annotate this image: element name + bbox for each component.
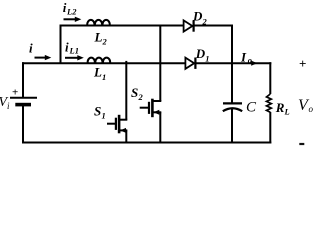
svg-text:i: i — [65, 40, 69, 55]
wire top-right corner down through output node to capacitor — [231, 25, 233, 104]
transistor S2 source arrow — [153, 110, 159, 115]
wire capacitor bottom to bottom rail — [231, 108, 233, 144]
wire vertical D2-anode node down to S2 drain (crosses input row) — [159, 25, 161, 102]
capacitor C curved bottom plate — [223, 108, 242, 111]
transistor S1 source arrow — [120, 128, 126, 133]
current arrow i_L2 — [64, 18, 76, 20]
wire top row left segment (node A to D2 anode) — [60, 25, 184, 27]
svg-text:S: S — [131, 85, 138, 100]
svg-text:+: + — [299, 56, 306, 71]
svg-text:L2: L2 — [66, 7, 77, 17]
svg-text:+: + — [12, 87, 18, 99]
output minus sign — [299, 143, 304, 145]
wire vertical from node A down to input row — [60, 25, 62, 64]
wire S1 source down to bottom rail — [125, 130, 127, 143]
transistor S1 gate bar — [115, 118, 117, 130]
wire bottom rail — [22, 142, 271, 144]
inductor L1 coil — [88, 58, 111, 64]
diode D2 triangle — [184, 20, 193, 31]
svg-text:1: 1 — [102, 111, 106, 121]
svg-text:L1: L1 — [69, 46, 79, 56]
battery Vi long plate — [10, 97, 37, 99]
svg-text:C: C — [246, 100, 257, 116]
transistor S1 drain lead — [119, 119, 127, 121]
inductor L2 coil — [87, 20, 110, 26]
wire load resistor bottom to bottom rail — [269, 112, 271, 144]
transistor S2 drain lead — [152, 100, 161, 102]
transistor S2 gate bar — [148, 102, 150, 114]
wire left rail top (input node to battery +) — [22, 62, 24, 97]
wire output row (D1 cathode to output corner) — [195, 62, 271, 64]
transistor S1 gate lead — [107, 123, 116, 125]
wire input row (left rail to D1 anode) — [22, 62, 185, 64]
svg-text:L: L — [93, 65, 102, 80]
svg-text:i: i — [29, 41, 33, 56]
transistor S1 channel bar — [118, 115, 121, 134]
svg-text:I: I — [240, 50, 247, 65]
svg-text:L: L — [284, 107, 290, 117]
wire S1 drain vertical — [125, 61, 127, 120]
svg-text:o: o — [248, 55, 252, 65]
current arrow i_L1 — [65, 57, 78, 59]
current arrow I_o (on output wire) — [251, 61, 257, 66]
svg-text:i: i — [7, 101, 10, 111]
svg-text:o: o — [309, 104, 314, 114]
diode D2 cathode bar — [193, 20, 195, 31]
svg-text:L: L — [94, 30, 103, 45]
capacitor C top plate — [223, 102, 242, 104]
wire left rail bottom (battery - to bottom rail) — [22, 106, 24, 144]
diode D1 cathode bar — [194, 58, 196, 69]
battery Vi short thick plate — [15, 103, 31, 107]
resistor RL zigzag — [267, 94, 272, 112]
wire top row right segment (D2 cathode to top-right corner) — [194, 25, 234, 27]
svg-text:D: D — [192, 9, 203, 24]
transistor S2 gate lead — [140, 107, 149, 109]
svg-text:2: 2 — [202, 17, 208, 27]
wire output corner down to load resistor — [269, 62, 271, 94]
wire S2 source down to bottom rail — [159, 112, 161, 143]
svg-text:R: R — [275, 100, 285, 115]
transistor S1 source lead — [119, 129, 127, 131]
svg-text:2: 2 — [102, 37, 108, 47]
svg-text:2: 2 — [138, 92, 144, 102]
transistor S2 channel bar — [151, 99, 154, 118]
transistor S2 source lead — [152, 111, 161, 113]
svg-text:D: D — [195, 46, 206, 61]
svg-text:1: 1 — [102, 72, 106, 82]
diode D1 triangle — [185, 58, 194, 69]
current arrow i — [35, 57, 46, 59]
svg-text:1: 1 — [205, 54, 209, 64]
svg-text:S: S — [94, 104, 101, 119]
